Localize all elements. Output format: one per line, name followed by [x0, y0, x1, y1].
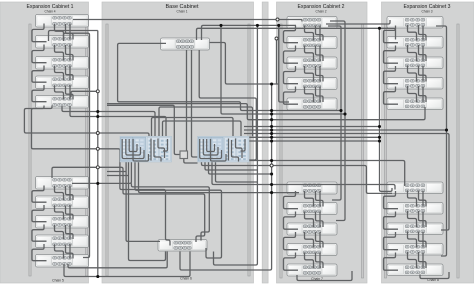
enclosure c2-top-2: [287, 37, 337, 49]
enclosure c3-bot-4: [387, 244, 443, 256]
wire c2-bot link 1b: [316, 191, 324, 207]
rack rail left c2: [280, 24, 282, 278]
wire top bus B: [197, 28, 396, 40]
wire busA drop into c2: [279, 25, 289, 102]
enclosure c3-top-3: [387, 57, 443, 69]
rack rail left base: [106, 24, 108, 276]
junction busA gap2 left vertical: [256, 24, 259, 27]
wire bus y171.5: [107, 171, 126, 173]
wire c3-top link 4b: [419, 86, 427, 102]
junction gap2 y141: [270, 139, 273, 142]
wire bus y133.5: [244, 134, 449, 231]
wire c2-bot link 3b: [316, 232, 324, 248]
wire cross-link y117.5: [152, 118, 234, 137]
enclosure c1-top-5: [36, 96, 89, 109]
enclosure c2-bot-4: [287, 244, 337, 256]
junction busA c2 drop: [277, 24, 280, 27]
wire c1-top link 3d: [69, 66, 71, 81]
rack rail right c1: [85, 24, 87, 276]
enclosure c1-bot-5: [36, 255, 89, 268]
wire c2-top link 1a: [305, 26, 314, 41]
wire c1-top link 1d: [69, 24, 71, 40]
wire c2-bot link 3d: [319, 232, 321, 248]
wire c3-bot link 4b: [419, 252, 427, 268]
wire c3-top link 4c: [384, 87, 399, 105]
wire c1-bot link 4b: [66, 245, 74, 259]
rack rail left c3: [384, 24, 386, 278]
wire c3-top link 2d: [422, 46, 424, 62]
wire c1-bot link 1b: [66, 186, 74, 200]
wire c1-bot link 3a: [55, 225, 64, 239]
wire c2-top link 2b: [316, 46, 324, 62]
wire base-top right y84: [210, 43, 279, 85]
wire bus y126.5: [244, 126, 380, 128]
wire c1-bot link 1c: [32, 186, 47, 203]
wire c3-top link 3b: [419, 66, 427, 82]
wire c3-top link 3a: [408, 66, 417, 82]
junction gap1 y116.5: [96, 115, 99, 118]
wire c1-bot link 1a: [55, 186, 64, 200]
wire c1-bot link 1d: [69, 186, 71, 201]
wire rail to clusterA x155: [98, 112, 155, 137]
wire c2 margin B: [330, 21, 345, 221]
junction gap2 y84: [270, 82, 273, 85]
junction gap2 y160.5: [270, 159, 273, 162]
wire clusterB top drop: [221, 25, 345, 114]
wire c3-bot link 2c: [384, 212, 399, 230]
wire c3-top link 1b: [419, 25, 427, 41]
wire c3-top link 1a: [408, 25, 417, 41]
svg-text:Chain 1: Chain 1: [177, 10, 188, 14]
wire c3-bot link 1b: [419, 191, 427, 207]
controller cluster B: [198, 136, 250, 162]
wire c2-bot link 1a: [305, 191, 314, 207]
wire c3-bot link 2d: [422, 212, 424, 228]
junction gap2 y114: [270, 112, 273, 115]
wire B nest 4: [211, 139, 227, 161]
wire c1-top link 4a: [55, 86, 64, 100]
wire base-top down A: [186, 50, 188, 151]
wire c2-top link 4d: [319, 87, 321, 103]
wire c2-bot link 1c: [284, 191, 299, 209]
enclosure c2-bot-3: [287, 223, 337, 235]
wire bus y170: [205, 162, 257, 170]
wire bus y137.3: [244, 136, 380, 138]
wire c1-top link 1c: [32, 24, 47, 42]
divider pillar between base and cabinet 2: [262, 2, 268, 283]
wire A weave v4: [163, 139, 168, 151]
wire cluster left bus y183.4: [98, 162, 132, 183]
enclosure base-bottom: [158, 240, 207, 252]
connector gap1 y91.3: [96, 90, 99, 93]
enclosure c2-bot-5: [287, 264, 337, 276]
wire B weave v3: [236, 139, 243, 159]
wire rackrail line y103.6 to c3-top row4: [107, 104, 425, 120]
wire B weave v2: [232, 140, 239, 162]
wire c1-bot link 4a: [55, 245, 64, 259]
wire gap1 rail: [97, 31, 99, 277]
wire c3-top link 1c: [384, 26, 399, 43]
wire c3-bot link 1d: [422, 191, 424, 207]
wire gap2 rail: [180, 84, 272, 270]
junction c2 margin y114: [343, 112, 346, 115]
wire c2-top link 1c: [284, 26, 299, 43]
wire c1-bot link 4c: [32, 244, 47, 261]
junction c3 margin y130: [445, 128, 448, 131]
enclosure c1-bot-1: [36, 177, 89, 190]
wire c2-top link 2d: [319, 46, 321, 62]
wire c1bot to cluster y167.3: [52, 167, 205, 242]
enclosure c1-bot-4: [36, 235, 89, 248]
wire bus y174: [209, 162, 272, 174]
wire c1 bottom bus y267.8: [68, 252, 167, 268]
wire c1-row4 left loop outer: [24, 106, 149, 137]
wire c1-row3 stub y91.3: [71, 91, 98, 97]
wire A nest 2: [126, 139, 141, 155]
wire c2-bot link 1d: [319, 191, 321, 207]
enclosure c1-top-3: [36, 57, 89, 70]
wire c3-top link 2c: [384, 46, 399, 64]
wire clusterA down x131.4 lower: [131, 183, 209, 240]
junction gap1 y111.5: [96, 110, 99, 113]
wire c2-bot link 4a: [305, 253, 314, 269]
wire cross-link y107: [159, 107, 253, 137]
wire B nest 1: [200, 139, 222, 159]
enclosure c1-top-4: [36, 76, 89, 89]
rack rail right c3: [457, 24, 459, 278]
wire c2 margin A: [328, 26, 341, 200]
junction rail3 y137.3: [378, 136, 381, 139]
connector gap1 y133: [96, 132, 99, 135]
cabinet Expansion Cabinet 2: [277, 2, 368, 283]
wire c2-bot link 2b: [316, 212, 324, 228]
wire c3-bot link 3d: [422, 232, 424, 248]
wire c1-bot link 3c: [32, 225, 47, 242]
wire c2-bot link 4d: [319, 253, 321, 269]
wire c3-bot link 2a: [408, 211, 417, 227]
junction busA clusterB drop: [219, 24, 222, 27]
enclosure c1-top-1: [36, 15, 89, 28]
junction box between clusters: [180, 151, 188, 159]
wire c2-top link 4c: [284, 87, 299, 105]
rack rail right base: [248, 24, 250, 276]
wire c1-row4 left loop inner: [32, 106, 171, 246]
junction gap2 y184.5: [270, 183, 273, 186]
enclosure c3-top-5: [387, 98, 443, 110]
enclosure c2-top-4: [287, 78, 337, 90]
wire c2-bot link 4b: [316, 253, 324, 269]
wire base-top down B: [192, 50, 198, 157]
wire bus y165.5: [202, 162, 393, 193]
wire c1-top link 2b: [66, 45, 74, 61]
junction rail3 y141: [378, 139, 381, 142]
enclosure c2-bot-2: [287, 203, 337, 215]
wire c1-row4 to rail y116.5: [70, 106, 98, 117]
wire c1-bot link 2a: [55, 206, 64, 220]
wire c3-bot link 3c: [384, 232, 399, 250]
wire c2-top link 4a: [305, 87, 314, 103]
controller cluster A: [120, 136, 172, 162]
wire row1 link c1-c2 y19.5: [73, 20, 302, 22]
wire c1-top link 3a: [55, 66, 64, 80]
wire c3-top link 3c: [384, 66, 399, 84]
junction gap2 y126.5: [270, 125, 273, 128]
wire c3-bot link 4d: [422, 253, 424, 269]
connector gap2 y165.5: [270, 164, 273, 167]
wire junction box down: [184, 159, 198, 164]
wire bus y130: [244, 129, 447, 131]
wire c3-bot link 1a: [408, 191, 417, 207]
wire B nest 3: [207, 139, 215, 152]
wire clusterA down x135: [135, 162, 222, 258]
wire c1-bot link 2d: [69, 205, 71, 220]
wire c2-top link 3d: [319, 66, 321, 82]
connector gap1 y167.3: [96, 166, 99, 169]
wire gap2 left vertical: [214, 25, 258, 265]
enclosure c1-bot-2: [36, 196, 89, 209]
wire c1-top link 4b: [66, 86, 74, 100]
wire clusterA down x138.5: [139, 162, 300, 193]
wire c1-top link 1a: [55, 24, 64, 40]
wire c1-top link 2c: [32, 45, 47, 63]
junction c2 margin y110.5: [339, 109, 342, 112]
wire c1 chain-in B + margin down: [64, 33, 90, 257]
wire c3-top link 3d: [422, 66, 424, 82]
wire c2-top link 3b: [316, 66, 324, 82]
wire c3-bot link 2b: [419, 211, 427, 227]
enclosure c2-bot-1: [287, 182, 337, 194]
enclosure c1-bot-3: [36, 216, 89, 229]
wire c1-top link 4c: [32, 85, 47, 102]
wire c3-bot link 4a: [408, 252, 417, 268]
wire bus y182: [216, 162, 258, 182]
svg-text:Chain 5: Chain 5: [52, 279, 64, 283]
wire c2-top link 4b: [316, 87, 324, 103]
wire c2-top link 2c: [284, 46, 299, 64]
wire c2-top link 2a: [305, 46, 314, 62]
wire c1bot to cluster y183.4: [72, 182, 98, 184]
wire base-top down C: [199, 50, 256, 160]
wire A nest 3: [129, 139, 137, 152]
wire c1-top link 2a: [55, 45, 64, 61]
junction gap2 y130: [270, 128, 273, 131]
wire c3-top link 4a: [408, 86, 417, 102]
wire c3-bot link 3a: [408, 232, 417, 248]
wire c1-top link 4d: [69, 85, 71, 100]
wire c3-top link 1d: [422, 26, 424, 41]
cabinet Expansion Cabinet 3: [382, 2, 474, 283]
wire c3 margin A: [436, 26, 447, 256]
wire c2-bot link 3a: [305, 232, 314, 248]
wire clusterA down x128.5: [129, 162, 166, 261]
wire c2-top link 3c: [284, 66, 299, 84]
wire bus y184.5: [212, 162, 395, 190]
rack rail right c2: [361, 24, 363, 278]
wire top bus A: [202, 25, 297, 40]
junction gap1 y183.4: [96, 182, 99, 185]
enclosure c3-bot-1: [387, 182, 443, 194]
wire rail3 from busA: [380, 28, 393, 191]
junction gap2 y110.5: [270, 109, 273, 112]
junction gap2 y174: [270, 172, 273, 175]
wire c1-bot link 3d: [69, 225, 71, 240]
junction rail3 y126.5: [378, 125, 381, 128]
wire c1-bot link 2b: [66, 206, 74, 220]
wire c1-bot link 2c: [32, 205, 47, 222]
connector gap2 top y38.5: [275, 37, 278, 40]
enclosure c3-top-1: [387, 17, 443, 29]
wire base-top loop left: [118, 43, 341, 110]
wire bus y160.5: [249, 161, 405, 187]
wire c2-bot link 4c: [284, 253, 299, 271]
wire A weave v1: [150, 139, 152, 161]
wire c1-top link 3b: [66, 66, 74, 80]
junction busB rail3: [378, 27, 381, 30]
junction gap2 y133.5: [270, 132, 273, 135]
wire c3-bot link 4c: [384, 253, 399, 271]
wire B weave v4: [241, 139, 246, 151]
wire rail to clusterA x166: [98, 117, 166, 137]
wire c1 chain-in A: [49, 31, 98, 42]
connector gap1 y148.8: [96, 147, 99, 150]
wire clusterA down x126.1: [126, 162, 160, 241]
enclosure c3-bot-3: [387, 223, 443, 235]
cabinet Expansion Cabinet 1: [0, 2, 89, 283]
wire c2-top link 1b: [316, 26, 324, 41]
cabinet Base Cabinet: [102, 2, 254, 283]
enclosure c3-top-4: [387, 78, 443, 90]
wire c1-bot link 4d: [69, 244, 71, 259]
wire bus y175.5: [107, 175, 129, 177]
wire gap2 short vertical: [276, 39, 278, 85]
wire c1-top link 3c: [32, 66, 47, 83]
wire c3 bottom return: [420, 272, 449, 279]
wire B nest 2: [203, 139, 218, 155]
junction gap2 y119.7: [270, 118, 273, 121]
wire cross-link y121: [163, 121, 242, 137]
rack rail left c1: [29, 24, 31, 276]
wire c3-bot link 1c: [384, 191, 399, 209]
wire c2-bot link 3c: [284, 232, 299, 250]
junction gap2 y192.6: [270, 191, 273, 194]
wire c1-top link 2d: [69, 45, 71, 61]
wire c3-bot link 3b: [419, 232, 427, 248]
enclosure c2-top-1: [287, 17, 337, 29]
wire c3-top link 2a: [408, 45, 417, 61]
wire c1-bot link 3b: [66, 225, 74, 239]
wire A nest 4: [133, 139, 149, 161]
svg-text:Chain 3: Chain 3: [422, 10, 433, 14]
wire c1 bottom bus y276.5: [64, 252, 190, 277]
wire c3-top link 4d: [422, 87, 424, 103]
wire A weave v3: [158, 139, 165, 159]
wire c1-top link 1b: [66, 24, 74, 40]
wire c1-row4 to rail y111.5: [62, 106, 98, 112]
wire c2-bot link 2a: [305, 212, 314, 228]
wire A nest 1: [122, 139, 144, 159]
wire c2-bot link 2d: [319, 212, 321, 228]
wire c2-bot link 2c: [284, 212, 299, 230]
connector c2 row1 entry: [276, 18, 279, 21]
junction gap1 bottom: [96, 275, 99, 278]
enclosure c3-top-2: [387, 37, 443, 49]
svg-text:Chain 4: Chain 4: [45, 10, 56, 14]
wire c2 bottom return: [297, 271, 352, 281]
enclosure base-top: [161, 38, 210, 50]
wire row1 link c2-c3 y23.5: [326, 20, 390, 24]
enclosure c3-bot-5: [387, 264, 443, 276]
enclosure c2-top-3: [287, 57, 337, 69]
wire c2-top link 1d: [319, 26, 321, 41]
junction gap2 y137.3: [270, 136, 273, 139]
enclosure c3-bot-2: [387, 203, 443, 215]
wire A weave v2: [154, 140, 161, 162]
enclosure c2-top-5: [287, 98, 337, 110]
svg-text:Chain 2: Chain 2: [316, 10, 327, 14]
wire B weave v1: [228, 139, 230, 161]
wire bundle line y105.3 to junction box: [107, 105, 180, 154]
enclosure c1-top-2: [36, 36, 89, 49]
wire c2-top link 3a: [305, 66, 314, 82]
wire bus y141: [244, 140, 380, 142]
wire c3-top link 2b: [419, 45, 427, 61]
